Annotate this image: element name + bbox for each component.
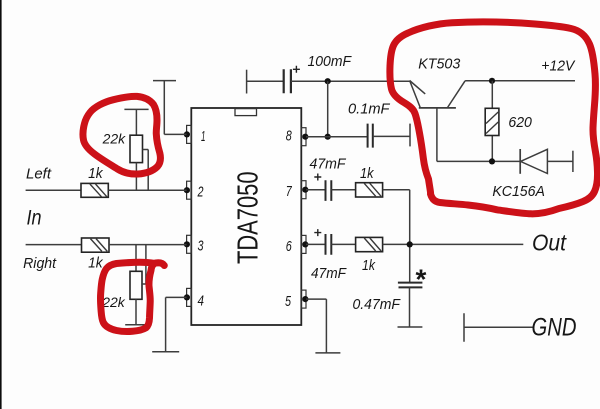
svg-text:*: *	[416, 264, 427, 295]
wire terminal to C1	[247, 80, 284, 82]
zener diode D1 KC156A	[520, 149, 573, 174]
terminal above pin 1	[153, 81, 176, 135]
GND terminal	[464, 313, 533, 341]
svg-text:7: 7	[286, 183, 292, 200]
capacitor C4 47mF plates	[326, 234, 332, 255]
node 620 top / rail	[489, 78, 495, 84]
wire Q1 base to diode	[437, 160, 520, 162]
wire pin 8 to C2	[306, 136, 368, 138]
pin 8 stub	[301, 128, 308, 146]
R4 tap wire	[142, 245, 146, 284]
ground below pin 5	[315, 352, 340, 354]
svg-text:4: 4	[198, 293, 205, 310]
wire R2 to pin 3	[109, 244, 187, 246]
resistor R2 1k (right input)	[82, 238, 110, 252]
svg-text:2: 2	[197, 184, 204, 201]
svg-text:KC156A: KC156A	[492, 183, 545, 200]
left page border	[0, 0, 2, 409]
svg-text:22k: 22k	[101, 294, 125, 310]
IC U1 TDA7050 body	[191, 108, 301, 325]
C1 polarity plus	[293, 66, 300, 73]
wire C4 to R7	[331, 243, 355, 245]
svg-text:5: 5	[285, 293, 291, 310]
R3 lead to pin2 wire	[135, 163, 137, 191]
pin 4 stub	[184, 288, 192, 306]
svg-text:8: 8	[286, 128, 292, 145]
ground below pin 4	[152, 351, 179, 353]
node at C1 / pin8 riser	[325, 78, 331, 84]
svg-text:GND: GND	[532, 314, 577, 342]
capacitor C1 100mF plates	[284, 69, 291, 93]
+12V supply rail wire	[465, 80, 575, 82]
svg-text:Right: Right	[23, 255, 57, 272]
svg-text:0.1mF: 0.1mF	[348, 100, 390, 117]
pin 6 stub	[301, 235, 308, 253]
resistor R7 1k (pin6)	[356, 237, 383, 251]
R4 lead to terminal	[135, 299, 137, 324]
svg-text:47mF: 47mF	[310, 155, 347, 172]
capacitor C2 0.1mF plates	[368, 124, 373, 148]
svg-text:Out: Out	[532, 230, 567, 256]
svg-text:1k: 1k	[88, 255, 104, 272]
wire C3 to R6	[331, 189, 355, 191]
wire R1 to pin 2	[108, 189, 186, 191]
wire pin 6 to C4	[306, 243, 325, 245]
wire R7 to Out	[383, 243, 524, 245]
R3 tap wire	[143, 150, 149, 191]
svg-text:Left: Left	[26, 166, 52, 183]
wire pin 5 to ground	[306, 299, 326, 353]
red marker loop around R3	[83, 96, 160, 174]
wire C1 to emitter of Q1	[291, 80, 410, 82]
pin 7 stub	[301, 181, 308, 199]
svg-text:3: 3	[198, 238, 204, 255]
resistor R6 1k (pin7)	[356, 183, 383, 197]
svg-text:1k: 1k	[88, 165, 104, 182]
svg-text:1: 1	[201, 128, 206, 145]
svg-text:620: 620	[508, 114, 532, 131]
C5 lead to terminal	[409, 287, 411, 327]
wire C2 to terminal	[373, 135, 410, 137]
terminal right of C2	[409, 124, 411, 147]
capacitor C3 47mF plates	[326, 180, 332, 201]
svg-text:1k: 1k	[362, 257, 376, 274]
svg-text:47mF: 47mF	[311, 265, 347, 282]
C3 polarity plus	[314, 174, 321, 181]
wire left input	[26, 189, 81, 191]
svg-text:100mF: 100mF	[308, 53, 352, 70]
pin 5 stub	[301, 290, 308, 308]
svg-text:In: In	[27, 206, 42, 229]
transistor Q1 KT503	[410, 81, 466, 162]
terminal below R4	[125, 324, 147, 326]
svg-text:TDA7050: TDA7050	[232, 172, 264, 265]
svg-text:22k: 22k	[102, 131, 126, 147]
svg-text:+12V: +12V	[541, 58, 576, 75]
wire pin 7 to C3	[306, 189, 325, 191]
node at pin8 row	[325, 134, 331, 140]
C4 polarity plus	[314, 229, 321, 236]
pin 2 stub	[184, 181, 192, 199]
red marker tail on R4 loop	[153, 263, 164, 266]
wire pin1 to terminal	[164, 133, 186, 135]
wire right input	[26, 244, 82, 246]
resistor R3 22k (top)	[130, 135, 143, 162]
node output junction	[407, 241, 413, 247]
wire pin 4 to ground	[166, 297, 187, 351]
svg-text:0.47mF: 0.47mF	[353, 296, 401, 313]
terminal below C5	[398, 326, 423, 328]
svg-text:6: 6	[286, 238, 292, 255]
terminal left of capacitor C1	[246, 70, 248, 94]
svg-text:1k: 1k	[360, 165, 375, 182]
wire R6 to output riser	[383, 190, 410, 283]
pin 3 stub	[184, 235, 192, 253]
wire riser node to pin8 row	[327, 81, 329, 137]
node 620 bottom / base wire	[489, 158, 495, 164]
resistor R5 620	[485, 81, 499, 162]
terminal above R3 22k	[124, 109, 148, 135]
red marker loop around Q1 region	[390, 22, 598, 214]
capacitor C5 0.47mF plates	[398, 283, 423, 288]
svg-text:KT503: KT503	[418, 56, 461, 73]
resistor R1 1k (left input)	[81, 183, 108, 197]
red marker loop around R4	[100, 262, 154, 331]
resistor R4 22k (bottom)	[130, 245, 142, 300]
pin 1 stub	[184, 125, 192, 143]
